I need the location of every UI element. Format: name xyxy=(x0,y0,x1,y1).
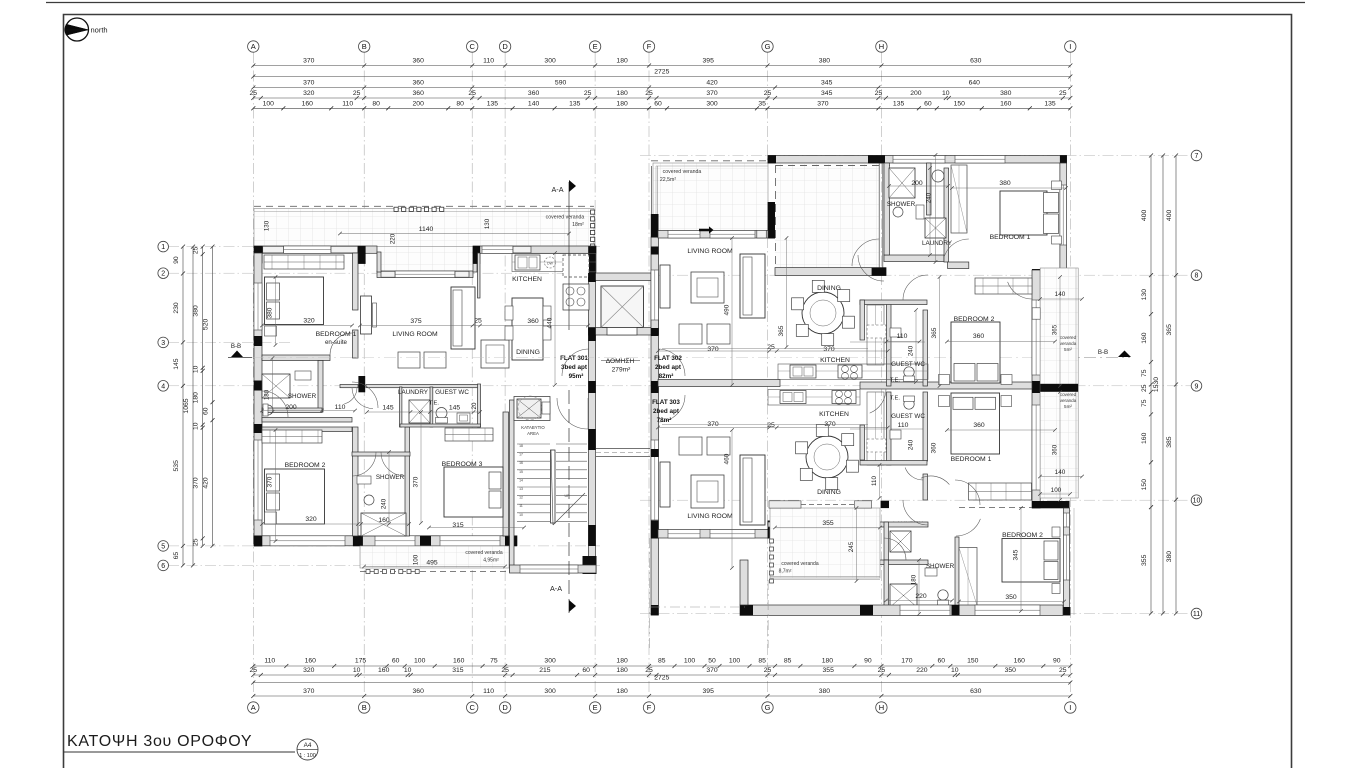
svg-text:400: 400 xyxy=(1141,210,1148,222)
svg-text:B-B: B-B xyxy=(231,343,241,350)
svg-text:11: 11 xyxy=(1193,611,1200,618)
bedroom2 bed xyxy=(265,469,325,524)
shower2 fixtures xyxy=(361,513,406,536)
grid bubble C top xyxy=(467,41,478,52)
svg-text:360: 360 xyxy=(527,318,539,325)
svg-text:420: 420 xyxy=(706,80,718,87)
row bubbles left xyxy=(158,241,169,252)
svg-text:15: 15 xyxy=(519,470,523,474)
svg-text:240: 240 xyxy=(926,192,933,203)
elevator corner blocks xyxy=(588,273,596,281)
svg-text:GUEST WC: GUEST WC xyxy=(891,361,925,368)
grid bubble E top xyxy=(589,41,600,52)
grid bubble B bottom xyxy=(359,702,370,713)
grid bubble G bottom xyxy=(762,702,773,713)
bottom veranda bottom edge + squares xyxy=(360,571,509,573)
svg-text:345: 345 xyxy=(1013,549,1020,560)
svg-text:370: 370 xyxy=(823,346,835,353)
flat303 veranda squares xyxy=(770,539,774,543)
svg-text:ΔΟΜΗΣΗ: ΔΟΜΗΣΗ xyxy=(606,358,635,365)
flat303 inner walls xyxy=(887,392,892,465)
svg-text:345: 345 xyxy=(821,80,833,87)
svg-text:110: 110 xyxy=(264,658,275,665)
page top edge line xyxy=(46,2,1305,4)
svg-text:14: 14 xyxy=(519,478,523,482)
svg-text:590: 590 xyxy=(555,80,567,87)
svg-text:495: 495 xyxy=(426,560,438,567)
B-B section left xyxy=(228,357,252,359)
bedroom2 wardrobe xyxy=(262,430,322,443)
dim 495 xyxy=(364,566,505,568)
svg-text:380: 380 xyxy=(1000,90,1012,97)
svg-text:AREA: AREA xyxy=(527,431,539,436)
stairwell right wall black columns xyxy=(588,273,596,282)
laundry302 basin xyxy=(932,170,944,182)
svg-text:25: 25 xyxy=(878,667,886,674)
svg-text:90: 90 xyxy=(173,256,180,264)
svg-text:180: 180 xyxy=(616,667,628,674)
svg-text:DINING: DINING xyxy=(516,349,540,356)
svg-text:160: 160 xyxy=(305,658,317,665)
svg-text:100: 100 xyxy=(729,658,741,665)
svg-text:2725: 2725 xyxy=(654,675,669,682)
svg-text:G: G xyxy=(765,703,771,712)
left wall windows xyxy=(254,283,262,330)
svg-text:north: north xyxy=(91,25,108,34)
interior dims flat301 xyxy=(262,325,352,327)
svg-text:80: 80 xyxy=(372,100,380,107)
svg-text:520: 520 xyxy=(203,319,210,331)
svg-text:380: 380 xyxy=(1166,551,1173,563)
bedroom1 wardrobe xyxy=(264,255,344,269)
svg-text:10: 10 xyxy=(942,90,950,97)
veranda right wall double line xyxy=(878,163,880,274)
svg-text:355: 355 xyxy=(823,667,835,674)
svg-text:veranda: veranda xyxy=(1060,398,1077,403)
svg-text:25: 25 xyxy=(501,667,509,674)
guestwc wall xyxy=(478,384,481,427)
svg-text:130: 130 xyxy=(484,218,491,229)
svg-text:380: 380 xyxy=(193,305,200,317)
svg-text:T.E.: T.E. xyxy=(429,401,439,407)
flat302 shower xyxy=(889,168,915,198)
bedroom1 side tables xyxy=(265,326,277,336)
left veranda top small squares xyxy=(394,207,398,211)
left veranda right edge small squares xyxy=(591,210,595,214)
svg-text:279m²: 279m² xyxy=(612,367,631,374)
svg-text:385: 385 xyxy=(1166,436,1173,448)
svg-text:380: 380 xyxy=(819,58,831,65)
svg-text:380: 380 xyxy=(267,307,274,318)
svg-text:355: 355 xyxy=(822,520,834,527)
svg-text:SHOWER: SHOWER xyxy=(376,474,405,481)
svg-text:DINING: DINING xyxy=(817,285,841,292)
svg-text:180: 180 xyxy=(616,658,628,665)
flat303 veranda hatch xyxy=(770,508,880,578)
interior wall bedroom1 bottom / shower xyxy=(262,355,330,361)
left wall black columns xyxy=(254,336,262,346)
flat303 wc door arc xyxy=(905,468,923,481)
svg-text:60: 60 xyxy=(938,658,946,665)
svg-text:covered veranda: covered veranda xyxy=(546,215,585,221)
svg-text:6: 6 xyxy=(161,563,165,570)
elevator shaft walls xyxy=(589,273,659,281)
flat302 bedroom1 bed xyxy=(1000,191,1047,235)
grid bubble F top xyxy=(643,41,654,52)
svg-text:25: 25 xyxy=(875,90,883,97)
flat302 living furniture xyxy=(740,254,765,318)
grid line E xyxy=(594,52,596,700)
svg-text:370: 370 xyxy=(817,100,829,107)
svg-text:240: 240 xyxy=(908,439,915,450)
svg-text:LIVING ROOM: LIVING ROOM xyxy=(392,331,438,338)
grid bubble I bottom xyxy=(1065,702,1076,713)
svg-text:35: 35 xyxy=(758,100,766,107)
svg-text:1065: 1065 xyxy=(183,398,190,413)
laundry302 step wall + door xyxy=(948,262,969,269)
svg-text:135: 135 xyxy=(893,100,905,107)
svg-text:90: 90 xyxy=(1053,658,1061,665)
grid line H xyxy=(880,52,882,700)
flat301 entry door xyxy=(562,349,589,376)
svg-text:1: 1 xyxy=(161,244,165,251)
svg-text:25: 25 xyxy=(767,344,775,351)
svg-text:60: 60 xyxy=(582,667,590,674)
kitchen counters 301 xyxy=(512,254,596,272)
svg-text:2: 2 xyxy=(161,271,165,278)
shower2/bedroom3 wall xyxy=(405,427,410,536)
left exterior wall xyxy=(254,253,262,546)
svg-text:490: 490 xyxy=(724,304,731,315)
svg-text:25: 25 xyxy=(250,90,258,97)
svg-text:110: 110 xyxy=(898,422,909,429)
grid bubble D bottom xyxy=(499,702,510,713)
svg-text:140: 140 xyxy=(528,100,540,107)
svg-text:360: 360 xyxy=(528,90,540,97)
svg-text:370: 370 xyxy=(707,346,719,353)
svg-text:640: 640 xyxy=(969,80,981,87)
svg-text:230: 230 xyxy=(173,302,180,314)
flat303 kitchen counter xyxy=(768,390,860,406)
svg-text:75: 75 xyxy=(1141,369,1148,377)
svg-text:160: 160 xyxy=(378,517,390,524)
svg-text:110: 110 xyxy=(483,688,494,695)
grid line B xyxy=(363,52,365,700)
left dimension chains xyxy=(182,247,184,566)
left building bottom wall xyxy=(254,536,517,546)
party wall 302/303 xyxy=(658,380,780,387)
interior wall bedroom1/living xyxy=(353,253,359,310)
top dimension chains xyxy=(253,65,1070,67)
grid bubble C bottom xyxy=(467,702,478,713)
svg-text:145: 145 xyxy=(173,358,180,370)
svg-text:10: 10 xyxy=(193,422,200,430)
right building right wall upper xyxy=(1060,163,1067,270)
elevator door xyxy=(607,328,637,336)
svg-text:245: 245 xyxy=(848,541,855,552)
svg-text:C: C xyxy=(469,42,475,51)
svg-text:KITCHEN: KITCHEN xyxy=(512,276,542,283)
svg-text:FLAT 303: FLAT 303 xyxy=(652,399,680,406)
svg-text:FLAT 302: FLAT 302 xyxy=(654,355,682,362)
svg-text:SHOWER: SHOWER xyxy=(887,201,916,208)
left building top wall bedroom section xyxy=(254,246,377,253)
katavytio machine box xyxy=(514,397,550,421)
svg-text:78m²: 78m² xyxy=(657,417,672,424)
bedroom1 bed xyxy=(265,277,324,325)
stairwell bottom walls xyxy=(510,565,597,573)
svg-text:200: 200 xyxy=(413,100,425,107)
svg-text:4,95m²: 4,95m² xyxy=(483,558,499,564)
bedroom3 bed xyxy=(444,467,503,517)
right veranda divider black xyxy=(1040,384,1078,392)
svg-text:10: 10 xyxy=(193,365,200,373)
svg-text:LIVING ROOM: LIVING ROOM xyxy=(687,248,733,255)
svg-text:535: 535 xyxy=(173,460,180,472)
roof dashed outlines bottom xyxy=(648,538,650,648)
svg-text:240: 240 xyxy=(381,498,388,509)
svg-text:covered: covered xyxy=(1060,392,1077,397)
flat303 bedroom2 door arc xyxy=(956,519,980,536)
svg-text:1530: 1530 xyxy=(1153,377,1160,392)
svg-text:365: 365 xyxy=(1166,324,1173,336)
dining table 301 xyxy=(512,298,543,360)
svg-text:110: 110 xyxy=(335,404,346,411)
A-A section bottom xyxy=(568,390,570,614)
flat303 laundry xyxy=(890,531,911,552)
svg-text:180: 180 xyxy=(616,100,628,107)
left building step walls xyxy=(377,252,381,272)
svg-text:10: 10 xyxy=(951,667,959,674)
svg-text:85: 85 xyxy=(758,658,766,665)
veranda bottom wall = dining top wall xyxy=(775,268,886,276)
flat302 guest wc xyxy=(904,367,914,377)
svg-text:D: D xyxy=(502,703,508,712)
svg-text:25: 25 xyxy=(250,667,258,674)
svg-text:65: 65 xyxy=(173,552,180,560)
title underline xyxy=(64,751,296,753)
svg-text:A-A: A-A xyxy=(552,185,564,194)
grid line F xyxy=(648,52,650,700)
interior dims flat303 xyxy=(658,427,888,429)
living room sofa xyxy=(451,287,475,349)
svg-text:25: 25 xyxy=(584,90,592,97)
grid row lines left xyxy=(168,246,600,248)
svg-text:G: G xyxy=(765,42,771,51)
svg-text:360: 360 xyxy=(973,422,985,429)
svg-text:240: 240 xyxy=(908,345,915,356)
svg-text:covered veranda: covered veranda xyxy=(663,169,702,175)
bottom dimension chains xyxy=(253,665,1070,667)
svg-text:360: 360 xyxy=(931,442,938,453)
svg-text:13: 13 xyxy=(519,487,523,491)
svg-text:130: 130 xyxy=(264,220,271,231)
svg-text:25: 25 xyxy=(764,90,772,97)
svg-text:1 : 100: 1 : 100 xyxy=(299,753,316,759)
svg-text:135: 135 xyxy=(1044,100,1056,107)
svg-text:25: 25 xyxy=(1059,667,1067,674)
svg-text:130: 130 xyxy=(1141,289,1148,301)
grid bubble A bottom xyxy=(248,702,259,713)
svg-text:135: 135 xyxy=(487,100,499,107)
left veranda dim 1140 xyxy=(340,233,569,235)
kitchen sink 301 xyxy=(515,255,540,270)
svg-text:160: 160 xyxy=(1141,332,1148,344)
svg-text:H: H xyxy=(879,42,884,51)
svg-text:395: 395 xyxy=(703,58,715,65)
svg-text:covered veranda: covered veranda xyxy=(465,550,502,556)
middle corridor walls flat301 xyxy=(366,385,479,388)
svg-text:60: 60 xyxy=(654,100,662,107)
laundry washer xyxy=(409,400,430,423)
svg-text:80: 80 xyxy=(456,100,464,107)
svg-text:60: 60 xyxy=(392,658,400,665)
living302 top wall with windows xyxy=(658,231,768,239)
row bubbles right xyxy=(1191,150,1202,161)
svg-text:300: 300 xyxy=(544,58,556,65)
303 interior dim line 110 xyxy=(850,428,925,430)
flat303 bedroom2 wardrobe xyxy=(959,548,977,606)
svg-text:150: 150 xyxy=(967,658,979,665)
grid row 4/9 line full width xyxy=(168,385,1196,387)
svg-text:320: 320 xyxy=(303,90,315,97)
svg-text:4: 4 xyxy=(161,383,165,390)
svg-text:25: 25 xyxy=(353,90,361,97)
svg-text:5m²: 5m² xyxy=(1064,347,1072,352)
svg-text:320: 320 xyxy=(303,318,315,325)
svg-text:320: 320 xyxy=(303,667,315,674)
svg-text:380: 380 xyxy=(999,180,1011,187)
svg-text:370: 370 xyxy=(413,476,420,487)
flat302 kitchen side counter xyxy=(867,305,884,365)
flat303 entry door xyxy=(658,395,685,422)
svg-text:22,5m²: 22,5m² xyxy=(660,177,676,183)
svg-text:18m²: 18m² xyxy=(572,222,584,228)
svg-text:25: 25 xyxy=(764,667,772,674)
grid bubble E bottom xyxy=(589,702,600,713)
bedroom2 top wall xyxy=(262,427,352,432)
svg-text:170: 170 xyxy=(901,658,913,665)
interior dim lines 302 xyxy=(662,348,868,350)
grid row lines right xyxy=(640,155,1196,157)
svg-text:GUEST WC: GUEST WC xyxy=(891,413,925,420)
svg-text:9: 9 xyxy=(1195,383,1199,390)
svg-text:SHOWER: SHOWER xyxy=(288,393,317,400)
svg-text:100: 100 xyxy=(684,658,696,665)
flat303 shower/laundry walls xyxy=(768,522,928,527)
302 window frame right wall xyxy=(1032,308,1040,319)
svg-text:2bed apt: 2bed apt xyxy=(655,364,682,371)
svg-text:75: 75 xyxy=(490,658,498,665)
guest wc fixtures xyxy=(436,408,447,419)
flat303 guest wc xyxy=(904,399,914,409)
shower1 basin xyxy=(295,371,311,380)
svg-text:220: 220 xyxy=(915,593,927,600)
svg-text:160: 160 xyxy=(302,100,314,107)
svg-text:350: 350 xyxy=(1005,667,1017,674)
wall-above dashes over right veranda part xyxy=(776,165,890,167)
svg-text:150: 150 xyxy=(1141,479,1148,491)
svg-text:25: 25 xyxy=(1141,384,1148,392)
flat303 bedroom2 walls xyxy=(955,537,959,608)
svg-text:220: 220 xyxy=(916,667,928,674)
flat303 living furniture xyxy=(740,455,765,525)
shower room walls xyxy=(318,361,323,413)
svg-text:25: 25 xyxy=(193,538,200,546)
svg-text:B: B xyxy=(362,703,367,712)
svg-text:320: 320 xyxy=(305,516,317,523)
svg-text:370: 370 xyxy=(303,58,315,65)
doors 301 xyxy=(330,333,352,355)
svg-text:370: 370 xyxy=(706,90,718,97)
svg-text:60: 60 xyxy=(203,407,210,415)
svg-text:360: 360 xyxy=(413,80,425,87)
svg-text:H: H xyxy=(879,703,884,712)
veranda right part open edge dashed xyxy=(775,165,777,268)
right building right wall bedroom2-303 xyxy=(1064,508,1070,615)
svg-text:145: 145 xyxy=(449,405,461,412)
svg-text:145: 145 xyxy=(382,405,394,412)
svg-text:365: 365 xyxy=(778,325,785,336)
svg-text:160: 160 xyxy=(378,667,390,674)
svg-text:85: 85 xyxy=(658,658,666,665)
svg-text:KITCHEN: KITCHEN xyxy=(819,411,849,418)
svg-text:95m²: 95m² xyxy=(569,373,584,380)
doors 302 303 xyxy=(858,255,884,281)
svg-text:5m²: 5m² xyxy=(1064,404,1072,409)
flat 302 inner walls xyxy=(884,255,944,262)
svg-text:10: 10 xyxy=(353,667,361,674)
flat302 kitchen counter xyxy=(778,364,928,380)
B-B section line across xyxy=(252,357,1040,359)
flat303 kitchen side counter xyxy=(867,392,884,465)
stair stringer xyxy=(551,450,556,523)
grid line C xyxy=(471,52,473,700)
svg-text:3bed apt: 3bed apt xyxy=(561,364,588,371)
right dimension chains xyxy=(1150,156,1152,614)
entrance arrow on veranda wall xyxy=(699,226,714,233)
svg-text:25: 25 xyxy=(645,90,653,97)
svg-text:FLAT 301: FLAT 301 xyxy=(560,355,588,362)
svg-text:160: 160 xyxy=(453,658,465,665)
grid bubble I top xyxy=(1065,41,1076,52)
svg-text:370: 370 xyxy=(303,688,315,695)
interior dims flat302 xyxy=(658,350,888,352)
svg-text:355: 355 xyxy=(1141,554,1148,566)
svg-text:A: A xyxy=(251,42,256,51)
svg-text:160: 160 xyxy=(1141,432,1148,444)
svg-text:A: A xyxy=(251,703,256,712)
dim 355 + 245 xyxy=(775,527,880,529)
flat302 bedroom2 bed xyxy=(951,322,1000,383)
flat302 bedroom2 wardrobe xyxy=(975,278,1032,294)
kitchen DW dashed circle xyxy=(545,257,556,268)
svg-text:BEDROOM 1: BEDROOM 1 xyxy=(990,234,1031,241)
black columns top wall xyxy=(254,246,263,264)
right building step black at y501 xyxy=(1032,501,1070,508)
svg-text:BEDROOM 2: BEDROOM 2 xyxy=(1002,532,1043,539)
svg-text:LAUNDRY: LAUNDRY xyxy=(922,240,953,247)
svg-text:covered veranda: covered veranda xyxy=(781,561,818,567)
svg-text:175: 175 xyxy=(355,658,367,665)
svg-text:160: 160 xyxy=(1000,100,1012,107)
svg-text:360: 360 xyxy=(413,90,425,97)
svg-text:50: 50 xyxy=(708,658,716,665)
svg-text:LAUNDRY: LAUNDRY xyxy=(398,389,429,396)
svg-text:440: 440 xyxy=(547,317,554,328)
svg-text:300: 300 xyxy=(706,100,718,107)
flat303 veranda bottom edge xyxy=(770,576,880,578)
